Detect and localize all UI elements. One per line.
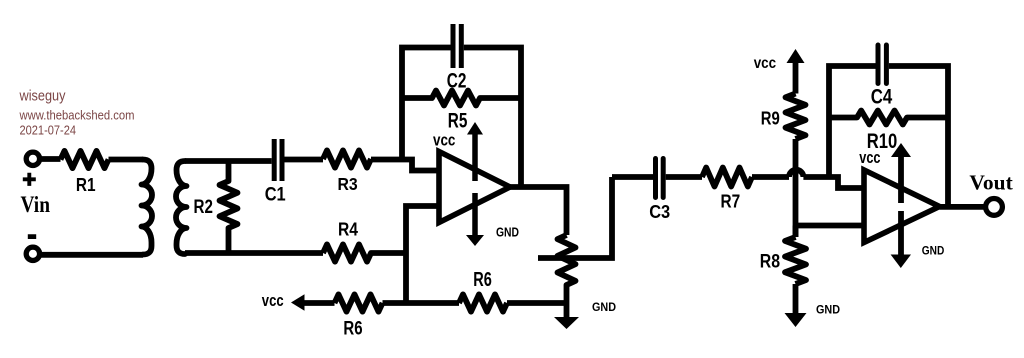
svg-text:R8: R8: [760, 252, 780, 273]
GND arrow pot: [554, 317, 579, 329]
svg-text:R7: R7: [721, 191, 741, 212]
feedback box U1 left vertical wire: [402, 48, 451, 160]
resistor R4: [323, 244, 406, 261]
wire node to R8: [793, 226, 799, 238]
feedback box U2 left vertical wire: [829, 66, 876, 177]
svg-text:GND: GND: [922, 245, 945, 257]
GND arrow U2: [891, 211, 911, 268]
resistor R8: [785, 237, 806, 284]
svg-text:R6: R6: [473, 269, 492, 291]
terminal - (Vin minus): [26, 247, 39, 260]
svg-text:vcc: vcc: [262, 292, 284, 310]
feedback box U2 top right wire: [889, 66, 948, 207]
svg-text:vcc: vcc: [754, 55, 776, 72]
wire secondary bottom to R4: [185, 250, 323, 256]
wire R6 to potentiometer bottom: [507, 300, 567, 306]
svg-text:Vin: Vin: [21, 192, 51, 217]
capacitor C3: [656, 159, 664, 198]
resistor R7: [702, 168, 752, 187]
svg-text:GND: GND: [496, 225, 519, 240]
svg-text:vcc: vcc: [433, 131, 455, 149]
wire top input: [40, 156, 61, 162]
terminal Vout: [986, 199, 1003, 216]
svg-text:R5: R5: [448, 109, 468, 133]
svg-text:www.thebackshed.com: www.thebackshed.com: [19, 107, 135, 122]
wire C3 to R7: [666, 174, 702, 180]
potentiometer RV1: [558, 235, 576, 317]
GND arrow U1: [466, 193, 484, 246]
svg-text:C4: C4: [871, 85, 893, 109]
svg-text:Vout: Vout: [969, 171, 1012, 195]
resistor R2: [220, 161, 238, 253]
transformer T1 secondary: [176, 161, 186, 254]
vcc arrow left (R6): [291, 294, 335, 310]
wire C1 to R3: [285, 157, 324, 163]
wire U1 plus input: [406, 206, 439, 303]
VCC arrow R9: [787, 49, 805, 94]
wire R1 to transformer: [109, 157, 144, 163]
resistor R6 left: [335, 294, 383, 311]
transformer T1 primary: [142, 160, 153, 255]
wire R9 to node: [793, 139, 799, 237]
resistor R6 right: [459, 294, 507, 311]
capacitor C4: [878, 45, 886, 84]
svg-text:R6: R6: [343, 318, 362, 339]
svg-text:R1: R1: [76, 175, 96, 195]
svg-text:GND: GND: [816, 303, 840, 317]
svg-text:R3: R3: [338, 174, 358, 194]
resistor R3: [323, 150, 371, 167]
svg-text:R2: R2: [194, 196, 214, 218]
svg-text:GND: GND: [592, 300, 616, 314]
wire U2 output: [940, 204, 987, 210]
resistor R5: [402, 91, 521, 106]
svg-text:C3: C3: [649, 202, 670, 222]
capacitor C2: [453, 24, 461, 68]
wire hop over node: [789, 170, 803, 177]
potentiometer wiper wire: [538, 177, 612, 258]
wire R3 to op-amp U1 minus input: [371, 160, 439, 171]
label minus: [28, 234, 36, 239]
op-amp U1: [439, 152, 510, 223]
wire bottom node: [383, 300, 460, 306]
wire bottom input: [40, 252, 144, 258]
svg-text:wiseguy: wiseguy: [19, 87, 66, 104]
resistor R10: [829, 111, 948, 125]
wire secondary top to C1: [185, 158, 272, 164]
VCC arrow U1: [467, 122, 483, 181]
svg-text:C1: C1: [265, 184, 286, 206]
wire U1 output: [510, 187, 567, 235]
label plus: [23, 173, 36, 186]
op-amp U2: [864, 170, 940, 243]
resistor R1: [61, 151, 109, 168]
VCC arrow U2: [891, 143, 911, 203]
wire hop to U2 minus input: [803, 177, 864, 188]
wire node to U2 plus input: [796, 223, 865, 229]
svg-text:2021-07-24: 2021-07-24: [20, 122, 77, 137]
GND arrow R8: [785, 284, 807, 327]
svg-text:vcc: vcc: [859, 149, 880, 167]
wire R7 to hop: [752, 174, 789, 180]
svg-text:R4: R4: [338, 220, 358, 240]
svg-text:C2: C2: [447, 69, 467, 93]
resistor R9: [786, 94, 806, 139]
wire to C3: [612, 174, 653, 180]
capacitor C1: [274, 139, 282, 181]
svg-text:R9: R9: [761, 109, 780, 129]
feedback box U1 top right wire: [464, 48, 521, 188]
terminal + (Vin plus): [26, 152, 39, 165]
